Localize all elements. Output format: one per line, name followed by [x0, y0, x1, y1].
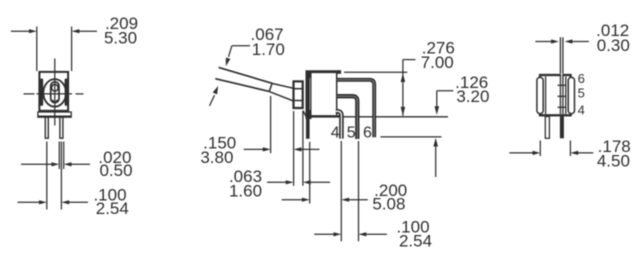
- inner right line: [565, 77, 567, 115]
- horizontal centerline dashes: [24, 93, 35, 95]
- dimension .178/4.50 arrows: [509, 152, 534, 154]
- extension line bracket: [309, 142, 311, 204]
- bat base top line: [272, 83, 293, 88]
- front body left dark bar: [40, 79, 43, 106]
- pin 6 bent: [337, 80, 374, 138]
- svg-text:5.08: 5.08: [372, 194, 405, 213]
- dimension .126/3.20 lower arrow: [435, 145, 437, 177]
- dimension .200/5.08 arrows: [282, 199, 304, 201]
- body right edge: [336, 73, 338, 115]
- svg-text:3.20: 3.20: [456, 87, 489, 106]
- terminal tick 6: [558, 84, 566, 86]
- body bottom edge: [310, 115, 344, 118]
- pin 5 bent: [337, 96, 357, 139]
- extension line left of .209 dim: [36, 27, 38, 72]
- extension line hex right face: [302, 111, 304, 186]
- flange bottom chamfer: [303, 111, 306, 117]
- pin 4 bent: [336, 111, 342, 138]
- toggle bat bottom line: [215, 79, 269, 92]
- dimension .209/5.30 left arrow: [11, 30, 31, 32]
- bracket below body: [306, 119, 310, 139]
- svg-text:2.54: 2.54: [96, 199, 129, 218]
- rear solid pin: [560, 117, 564, 139]
- bat edge-on lines: [559, 37, 561, 73]
- dimension .067/1.70 leader: [232, 45, 250, 47]
- svg-text:1.60: 1.60: [229, 181, 262, 200]
- svg-text:4: 4: [578, 103, 585, 118]
- svg-text:6: 6: [578, 71, 585, 86]
- extension line hex left face: [293, 111, 295, 186]
- .178 extension lines: [539, 141, 541, 157]
- dimension .100/2.54 arrows: [18, 201, 41, 203]
- toggle tip lower arc: [52, 100, 57, 102]
- inner left line: [545, 77, 547, 115]
- svg-text:0.50: 0.50: [99, 161, 132, 180]
- svg-text:6: 6: [363, 124, 372, 141]
- hex bushing: [294, 81, 303, 108]
- bat end cap: [269, 83, 272, 91]
- terminal tick 4: [558, 106, 566, 108]
- dimension .126/3.20 leader: [437, 90, 454, 92]
- front body outline: [39, 72, 68, 111]
- svg-text:4.50: 4.50: [597, 151, 630, 170]
- dimension .100/2.54 arrows (middle): [314, 233, 335, 235]
- svg-text:5.30: 5.30: [104, 29, 137, 48]
- svg-text:4: 4: [331, 124, 340, 141]
- bat base bottom line: [269, 92, 293, 101]
- toggle tip stadium: [51, 82, 59, 103]
- dimension .067/1.70 lower arrow: [210, 95, 215, 106]
- pin 6 extension line: [344, 71, 407, 73]
- front right pin: [60, 117, 63, 138]
- front bushing ellipse: [43, 79, 66, 107]
- front left pin: [45, 117, 48, 138]
- svg-text:3.80: 3.80: [200, 148, 233, 167]
- svg-text:0.30: 0.30: [597, 36, 630, 55]
- left capsule: [537, 77, 543, 113]
- body top edge: [306, 70, 342, 73]
- toggle tip inner circle: [52, 85, 59, 92]
- dimension .150/3.80 arrows: [244, 148, 264, 150]
- toggle bat top line: [219, 67, 273, 83]
- rear body outline: [540, 75, 571, 115]
- rear hollow bracket pin: [545, 117, 549, 139]
- mounting flange dark bar: [306, 71, 312, 120]
- dimension .209/5.30 right arrow: [79, 30, 97, 32]
- extension line pin 4: [340, 141, 342, 241]
- extension line pin 5: [358, 141, 360, 241]
- front body right dark bar: [65, 79, 68, 106]
- extension line bat junction: [270, 96, 272, 153]
- vertical centerline: [54, 59, 56, 126]
- extension line right of .209 dim: [71, 27, 73, 72]
- svg-text:7.00: 7.00: [421, 53, 454, 72]
- terminal tick 5: [558, 95, 566, 97]
- reference line B (pin tips): [380, 136, 441, 138]
- dimension .012/0.30 arrows: [535, 41, 552, 43]
- .100 dim extension lines: [46, 142, 48, 210]
- dimension .276/7.00 vertical: [402, 60, 404, 116]
- svg-text:5: 5: [578, 86, 585, 101]
- reference line A (body bottom extended): [344, 116, 449, 118]
- dimension .020/0.50 arrows: [21, 163, 53, 165]
- svg-text:5: 5: [347, 124, 356, 141]
- .020 dim extension lines: [58, 142, 60, 170]
- dimension .063/1.60 arrows: [267, 181, 287, 183]
- svg-text:1.70: 1.70: [252, 40, 285, 59]
- svg-text:2.54: 2.54: [399, 232, 432, 251]
- right capsule: [568, 77, 574, 113]
- front base plate: [38, 112, 71, 117]
- bat through body: [559, 75, 561, 114]
